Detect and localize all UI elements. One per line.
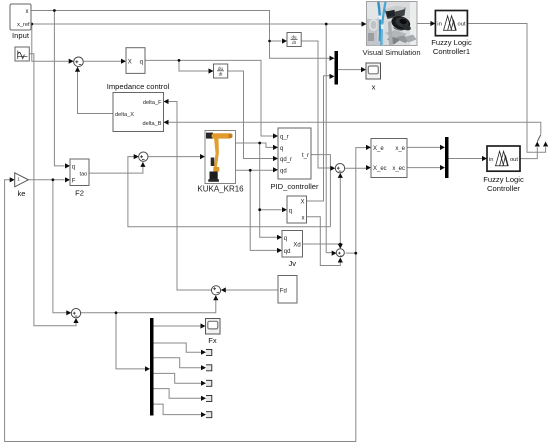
wire demux output 3 to terminator T2 xyxy=(154,358,204,368)
svg-text:Xd: Xd xyxy=(293,243,300,249)
wire F2.tao to sum s2 bottom xyxy=(89,164,143,173)
arrow into Fx scope xyxy=(201,323,206,328)
wire sum s5 output to sum s6 bottom with branch down to demux xyxy=(81,296,216,369)
wire net x (Input.x to mux1/derivative2) xyxy=(31,11,331,59)
wire fk2.X up to mux1 bottom input xyxy=(307,76,332,201)
sum s4 xyxy=(336,249,344,257)
svg-text:q: q xyxy=(280,146,283,152)
svg-text:Fuzzy Logic: Fuzzy Logic xyxy=(431,38,472,47)
wire sum s6 to delta_F xyxy=(167,102,212,291)
arrow into FLC in xyxy=(482,156,487,161)
svg-text:F: F xyxy=(72,178,76,184)
arrow into PID qd_r xyxy=(273,156,278,161)
svg-text:x: x xyxy=(302,215,305,221)
svg-text:X_ec: X_ec xyxy=(373,166,387,172)
arrow into mux2 top xyxy=(440,145,445,150)
wire PID.t_r to sum s4 left input xyxy=(311,155,330,227)
arrow into delta_F xyxy=(164,99,169,104)
wire sum s3 to X_ec input xyxy=(345,167,369,169)
sum s1 xyxy=(74,57,84,67)
svg-text:1: 1 xyxy=(17,177,20,182)
arrow into derivative1 xyxy=(209,68,214,73)
wire switch output long run to delta_B xyxy=(167,122,541,134)
derivative block du/dt 1 xyxy=(214,64,228,78)
svg-text:delta_F: delta_F xyxy=(143,100,162,106)
arrow into fk2.q xyxy=(282,207,287,212)
arrow into sum s3 left xyxy=(330,166,335,171)
constant Fd xyxy=(278,276,297,304)
arrow into demux input xyxy=(145,366,150,371)
terminator T5 xyxy=(206,412,212,418)
arrow into sum s4 top xyxy=(338,244,343,249)
scope x xyxy=(366,63,381,92)
svg-text:du: du xyxy=(218,66,223,71)
terminator T1 xyxy=(206,349,212,355)
arrow into PID q xyxy=(273,145,278,150)
wire Visual Simulation to Fuzzy Logic Controller1 xyxy=(416,23,433,25)
arrow into scope x xyxy=(361,67,366,72)
arrow into PID qd xyxy=(273,167,278,172)
robot lower link xyxy=(213,167,219,172)
left machinery light grays xyxy=(367,2,379,19)
wire Fd to sum s6 xyxy=(224,289,278,291)
wire fk2.x down to sum s4 bottom xyxy=(307,217,341,266)
sum s5 xyxy=(71,309,80,318)
wire demux output 6 to terminator T5 xyxy=(154,404,204,415)
arrow into KUKA input xyxy=(200,154,205,159)
wire mux2 to Fuzzy Logic Controller xyxy=(449,158,484,160)
wire torque feedback t_r branch to sum s2 xyxy=(128,157,331,227)
subsystem F2 xyxy=(70,159,89,198)
subsystem X_e/X_ec xyxy=(371,139,407,178)
wire demux output 1 to Fx scope xyxy=(154,325,203,327)
wire signal generator to sum s5 xyxy=(29,54,76,326)
svg-text:q: q xyxy=(72,164,75,170)
arrow into X_e xyxy=(366,145,371,150)
arrow into FLC1 in xyxy=(430,21,435,26)
svg-text:X: X xyxy=(300,200,304,206)
camera body xyxy=(385,6,406,19)
svg-text:KUKA_KR16: KUKA_KR16 xyxy=(197,185,244,194)
svg-text:delta_X: delta_X xyxy=(115,112,134,118)
arrow into F2.q xyxy=(65,163,70,168)
arrow into F2.F xyxy=(65,177,70,182)
svg-text:q: q xyxy=(140,59,143,65)
svg-text:du: du xyxy=(292,34,297,39)
arrow into X_ec xyxy=(366,165,371,170)
arrow into sum s6 right xyxy=(221,287,226,292)
wire delta_X to sum s1 xyxy=(78,67,114,113)
svg-text:Fd: Fd xyxy=(280,288,287,294)
svg-text:delta_B: delta_B xyxy=(143,121,162,127)
demux xyxy=(150,318,154,416)
wire Input.x branch down to F2.q xyxy=(54,11,64,166)
wire derivative1 to PID.qd_r xyxy=(228,71,276,159)
wire FLC1.out right and down to switch right input xyxy=(467,24,545,153)
svg-text:q_r: q_r xyxy=(280,135,289,141)
subsystem Input xyxy=(10,4,31,40)
svg-text:qd: qd xyxy=(280,168,287,174)
image block Visual Simulation xyxy=(362,2,420,58)
mux2 xyxy=(445,137,449,178)
wire fk1.q to PID.q_r with branch to derivative1 xyxy=(145,60,276,136)
blue hoses xyxy=(378,2,380,32)
arrow into Jv.qd xyxy=(277,248,282,253)
arrow into fk1.X xyxy=(121,59,126,64)
metallic clutter bottom xyxy=(385,30,407,41)
svg-text:qd_r: qd_r xyxy=(280,157,292,163)
svg-text:Fuzzy Logic: Fuzzy Logic xyxy=(483,175,524,184)
svg-text:Visual Simulation: Visual Simulation xyxy=(362,48,420,57)
manual switch lever xyxy=(537,135,541,142)
svg-text:t_r: t_r xyxy=(302,153,309,159)
svg-text:q: q xyxy=(289,208,292,214)
arrow into terminator T4 xyxy=(201,396,206,401)
terminator T3 xyxy=(206,380,212,386)
wire sum s4 output, up to X_e and down to bottom loop to ke xyxy=(5,148,369,442)
arrow into sum s1 left xyxy=(69,59,74,64)
arrow into sum s5 bottom xyxy=(73,318,78,323)
terminator T4 xyxy=(206,395,212,401)
svg-text:ke: ke xyxy=(17,189,25,198)
arrow into ke xyxy=(10,177,15,182)
camera lens xyxy=(390,14,412,32)
arrow into sum s3 bottom xyxy=(338,173,343,178)
svg-text:Controller: Controller xyxy=(487,184,520,193)
arrow into Jv.q xyxy=(277,235,282,240)
wire derivative2 to sum s3 xyxy=(301,41,333,168)
wire sum s1 to fk1.X xyxy=(84,60,123,62)
svg-text:x_ref: x_ref xyxy=(17,22,30,28)
wire demux output 4 to terminator T3 xyxy=(154,373,204,383)
arrow into mux2 bottom xyxy=(440,165,445,170)
subsystem KUKA_KR16 (robot image block) xyxy=(197,131,244,194)
svg-text:Impedance control: Impedance control xyxy=(107,82,170,91)
mux1 xyxy=(335,51,339,85)
svg-text:x: x xyxy=(26,9,29,15)
arrow into sum s4 left xyxy=(332,251,337,256)
svg-text:x: x xyxy=(372,83,376,92)
arrow into mux1 bottom xyxy=(330,74,335,79)
svg-text:X_e: X_e xyxy=(373,146,384,152)
svg-text:PID_controller: PID_controller xyxy=(270,182,319,191)
scope Fx xyxy=(206,319,221,346)
arrow into sum s6 bottom xyxy=(213,295,218,300)
wire demux output 5 to terminator T4 xyxy=(154,389,204,399)
svg-text:Fx: Fx xyxy=(208,336,217,345)
svg-text:X: X xyxy=(128,59,132,65)
svg-text:x_e: x_e xyxy=(395,146,405,152)
svg-text:Jv: Jv xyxy=(289,259,297,268)
wire sum s2 to KUKA input xyxy=(148,156,202,158)
arrow into derivative2 xyxy=(282,38,287,43)
light wall band right xyxy=(410,2,417,45)
robot vertical arm xyxy=(214,139,219,171)
wire ke output to F2.F with branch down to sum s5 xyxy=(28,180,68,313)
arrow switch right input xyxy=(543,142,548,147)
svg-text:tao: tao xyxy=(80,171,88,177)
sum s3 xyxy=(335,164,344,173)
arrow into sum s1 bottom xyxy=(75,67,80,72)
derivative block du/dt 2 xyxy=(287,33,301,47)
subsystem fk2 (q to X,x) xyxy=(287,196,307,223)
signal generator xyxy=(15,47,29,61)
arrow into terminator T3 xyxy=(201,381,206,386)
sum s2 xyxy=(139,152,148,161)
robot shoulder motor xyxy=(206,133,213,139)
arrow into sum s5 left xyxy=(66,310,71,315)
arrow into terminator T2 xyxy=(201,365,206,370)
arrow into PID q_r xyxy=(273,133,278,138)
svg-text:q: q xyxy=(284,236,287,242)
robot base xyxy=(210,172,218,182)
arrow into sum s2 bottom xyxy=(140,162,145,167)
wire X_e block outputs to mux2 xyxy=(407,147,442,167)
subsystem fk1 (X to q) xyxy=(126,48,145,74)
svg-text:F2: F2 xyxy=(75,189,84,198)
arrow switch left input xyxy=(535,142,540,147)
subsystem Impedance control xyxy=(107,82,170,132)
hose couplers xyxy=(378,15,382,19)
svg-text:in: in xyxy=(489,157,494,163)
fuzzy logic controller FLC xyxy=(483,146,524,193)
svg-text:qd: qd xyxy=(284,249,291,255)
gain ke xyxy=(15,173,29,198)
terminator T2 xyxy=(206,365,212,371)
robot elbow motor xyxy=(211,158,215,167)
svg-text:in: in xyxy=(437,22,442,28)
wire mux1 to scope x xyxy=(338,69,363,71)
arrow into sum s2 left xyxy=(134,154,139,159)
arrow into delta_B xyxy=(164,120,169,125)
wire FLC.out up to switch left input xyxy=(520,147,537,158)
sum s6 xyxy=(211,286,220,295)
subsystem PID_controller xyxy=(270,128,319,191)
wire KUKA q output to PID.q with branches to fk2.q and Jv.q xyxy=(236,143,282,237)
arrow into Visual Simulation xyxy=(362,21,367,26)
robot upper horizontal arm xyxy=(212,133,233,138)
arrow into sum s4 bottom xyxy=(338,258,343,263)
svg-text:Controller1: Controller1 xyxy=(433,47,470,56)
wire net x_ref (Input.x_ref to Visual Simulation) xyxy=(31,24,364,253)
arrow into mux1 top xyxy=(330,56,335,61)
svg-text:out: out xyxy=(510,157,518,163)
arrow into terminator T5 xyxy=(201,412,206,417)
subsystem Jv xyxy=(282,231,303,269)
wire KUKA qd output to PID.qd with branch to Jv.qd xyxy=(236,170,278,250)
svg-text:out: out xyxy=(458,22,466,28)
svg-text:Input: Input xyxy=(12,31,30,40)
svg-text:x_ec: x_ec xyxy=(392,166,405,172)
wire Jv.Xd to sums s3 and s4 xyxy=(303,175,341,248)
wire demux output 2 to terminator T1 xyxy=(154,343,204,352)
arrow into terminator T1 xyxy=(201,350,206,355)
fuzzy logic controller FLC1 xyxy=(431,11,472,57)
